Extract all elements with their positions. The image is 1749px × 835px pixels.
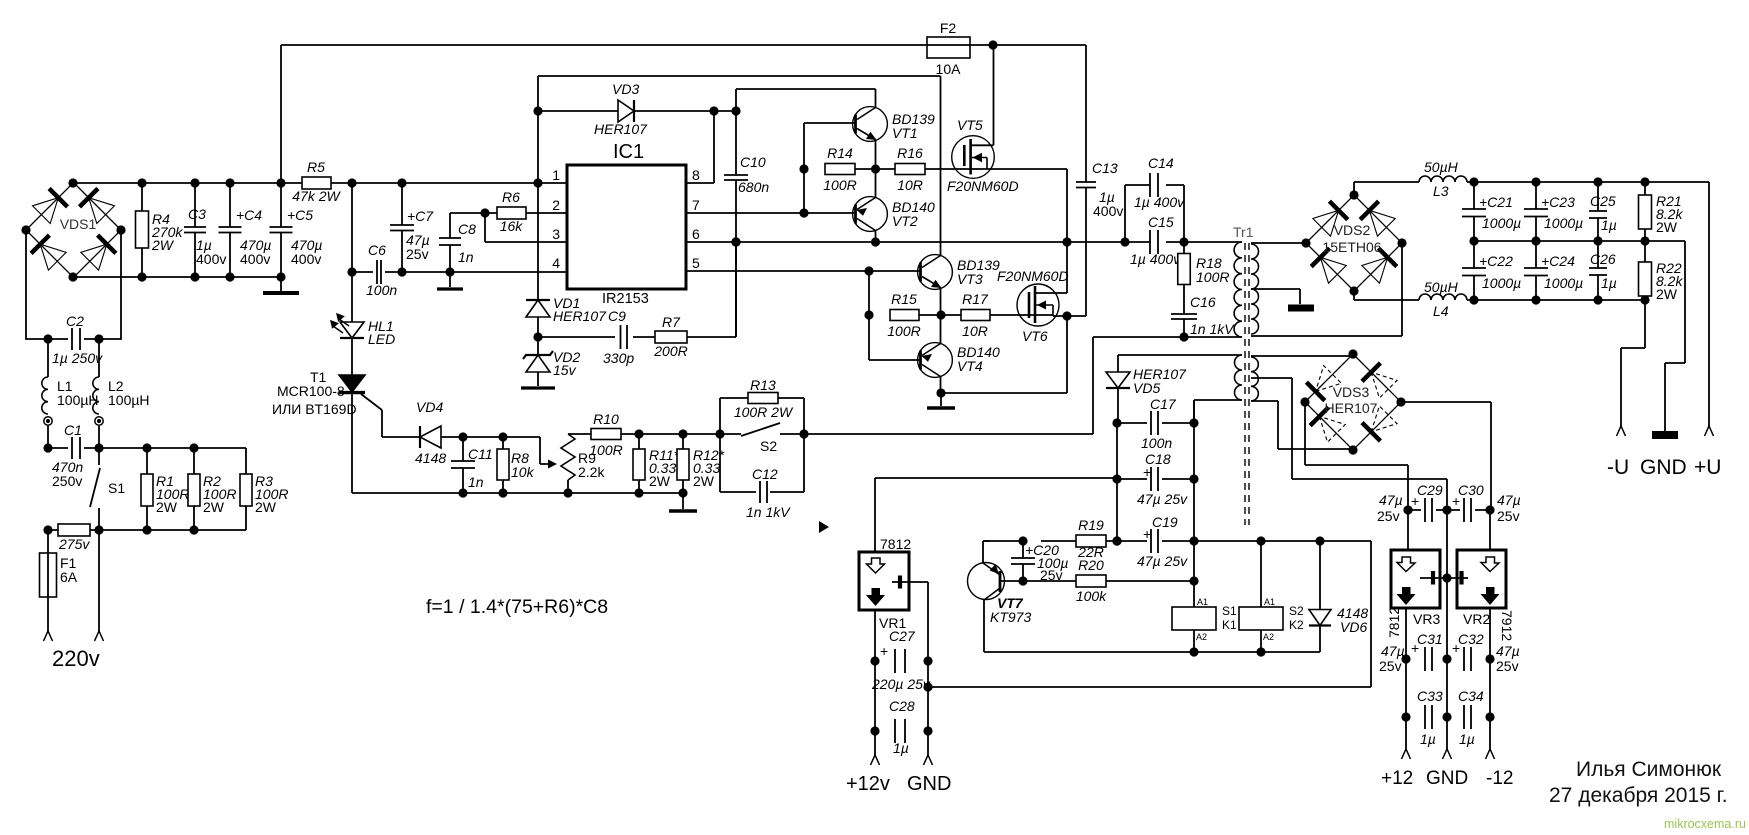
- node VD1 VD2 junction: [533, 332, 542, 341]
- svg-text:2W: 2W: [693, 473, 715, 489]
- svg-text:100R: 100R: [887, 323, 920, 339]
- transistor VT1: [853, 107, 888, 142]
- wire F1 top lead: [47, 530, 49, 597]
- svg-text:Tr1: Tr1: [1233, 224, 1254, 240]
- wire L1 top lead: [47, 339, 49, 377]
- ground VT4: [927, 406, 955, 409]
- node pin4 rail junctions: [397, 267, 454, 276]
- svg-text:L4: L4: [1433, 303, 1449, 319]
- wire C13 branch: [1067, 45, 1086, 316]
- wire secondary top: [1251, 242, 1306, 244]
- ground VD2: [521, 386, 555, 389]
- resistor R13: [748, 393, 778, 404]
- terminal L2 plug: [95, 417, 103, 425]
- svg-text:2: 2: [552, 197, 560, 213]
- wire VT7 emitter: [983, 541, 990, 563]
- wire C5 leads: [280, 183, 282, 277]
- svg-text:1µ: 1µ: [1601, 217, 1617, 233]
- svg-text:1µ: 1µ: [893, 740, 909, 756]
- node mid-bus junctions: [731, 237, 1188, 246]
- transistor VT2: [853, 197, 888, 232]
- svg-text:+: +: [1452, 640, 1460, 656]
- wire C12 loop: [720, 434, 804, 492]
- svg-text:1000µ: 1000µ: [1482, 215, 1521, 231]
- svg-text:1000µ: 1000µ: [1482, 275, 1521, 291]
- node R19 right junction: [1112, 536, 1121, 545]
- svg-text:K1: K1: [1222, 618, 1237, 632]
- svg-text:S2: S2: [760, 438, 777, 454]
- svg-text:R20: R20: [1078, 557, 1104, 573]
- svg-text:100n: 100n: [1141, 435, 1172, 451]
- svg-text:R13: R13: [750, 377, 776, 393]
- bridge rectifier VDS2: [1306, 195, 1402, 291]
- svg-text:6A: 6A: [60, 569, 78, 585]
- capacitor C26: [1589, 268, 1607, 275]
- varistor RU 275v: [58, 524, 90, 536]
- wire aux secondary top: [1251, 355, 1353, 357]
- potentiometer R9: [561, 434, 575, 480]
- wire bridge AC loop: [26, 230, 121, 339]
- wire VT5 drain: [971, 45, 994, 145]
- node C10 pin6 junction: [731, 237, 740, 246]
- svg-text:15v: 15v: [553, 362, 577, 378]
- svg-text:S1: S1: [1222, 604, 1237, 618]
- inductor L2: [93, 377, 99, 414]
- ground center tap: [1288, 305, 1314, 312]
- svg-text:100k: 100k: [1076, 588, 1107, 604]
- capacitor C1: [72, 437, 80, 459]
- wire C20 leads: [1022, 541, 1024, 581]
- svg-text:S1: S1: [108, 480, 125, 496]
- node R10 row junctions: [634, 429, 808, 438]
- svg-text:C14: C14: [1148, 155, 1174, 171]
- svg-text:C28: C28: [889, 698, 915, 714]
- svg-text:mikrocxema.ru: mikrocxema.ru: [1664, 817, 1746, 830]
- wire VR3 input: [1407, 510, 1409, 550]
- svg-text:LED: LED: [368, 331, 395, 347]
- node relay rail junctions: [1189, 647, 1265, 656]
- svg-text:47µ 25v: 47µ 25v: [1137, 491, 1188, 507]
- transformer Tr1 primary winding: [1234, 242, 1242, 337]
- capacitor C13: [1076, 182, 1096, 188]
- svg-text:R10: R10: [593, 411, 619, 427]
- ground R12: [669, 509, 697, 512]
- wire VD3 line: [538, 76, 736, 183]
- wire pin6 VS mid-bus: [686, 241, 1242, 243]
- R9 wiper arrowhead: [548, 460, 557, 469]
- node relay feed junctions: [1256, 536, 1324, 545]
- svg-text:50µH: 50µH: [1424, 279, 1459, 295]
- svg-text:47µ: 47µ: [1381, 643, 1405, 659]
- wire VT5 source: [984, 169, 1067, 242]
- svg-text:25v: 25v: [1377, 508, 1400, 524]
- svg-text:R16: R16: [897, 145, 923, 161]
- svg-text:C19: C19: [1152, 514, 1178, 530]
- svg-text:27 декабря 2015 г.: 27 декабря 2015 г.: [1549, 784, 1728, 807]
- wire VR3 output: [1405, 608, 1407, 749]
- VR3 gnd pin symbol: [1420, 577, 1447, 579]
- svg-text:10A: 10A: [936, 61, 962, 77]
- VR1 gnd pin symbol: [892, 581, 928, 583]
- node aux left rail junctions: [1112, 418, 1121, 545]
- transformer Tr1 secondary winding: [1251, 244, 1259, 334]
- wire R8 leads: [502, 437, 504, 493]
- wire VDS2 plus to L3: [1354, 182, 1419, 195]
- wire R9 wiper: [503, 437, 549, 464]
- svg-text:1µ: 1µ: [1601, 275, 1617, 291]
- wire R18 leads: [1183, 242, 1185, 314]
- svg-text:1n 1kV: 1n 1kV: [1190, 321, 1235, 337]
- wire pin8 to VD3: [686, 111, 714, 183]
- svg-text:F2: F2: [940, 20, 957, 36]
- resistor R19: [1076, 535, 1106, 547]
- svg-text:6: 6: [692, 226, 700, 242]
- svg-text:7812: 7812: [1386, 607, 1402, 638]
- svg-text:VDS1: VDS1: [60, 216, 97, 232]
- svg-text:VT5: VT5: [957, 117, 983, 133]
- svg-text:25v: 25v: [1496, 658, 1519, 674]
- node bus junctions: [137, 178, 542, 187]
- svg-text:IC1: IC1: [613, 141, 644, 163]
- svg-text:C34: C34: [1458, 688, 1484, 704]
- svg-text:ИЛИ BT169D: ИЛИ BT169D: [272, 401, 357, 417]
- wire R14 to emitters: [855, 168, 895, 170]
- wire R15 to emitters: [919, 314, 961, 316]
- wire VD1 VD2 chain: [537, 183, 539, 386]
- svg-text:400v: 400v: [240, 251, 270, 267]
- node pin7 pin5 junctions: [799, 208, 873, 275]
- wire VT3 base riser: [869, 271, 921, 360]
- capacitor C5: [270, 227, 293, 233]
- svg-text:VD6: VD6: [1340, 619, 1367, 635]
- capacitor C18: [1151, 467, 1158, 491]
- node VR mid gnd junction: [1442, 573, 1451, 582]
- wire VT7 collector: [984, 600, 1320, 652]
- svg-text:1000µ: 1000µ: [1544, 215, 1583, 231]
- svg-text:-U: -U: [1607, 456, 1629, 479]
- svg-text:C33: C33: [1417, 688, 1443, 704]
- node C27 junctions: [870, 656, 932, 665]
- svg-text:250v: 250v: [52, 473, 82, 489]
- VR2 gnd pin symbol: [1447, 577, 1468, 579]
- svg-text:1µ 250v: 1µ 250v: [52, 350, 103, 366]
- wire C9 R7 net: [538, 242, 736, 337]
- svg-text:VDS2: VDS2: [1334, 222, 1371, 238]
- svg-text:A2: A2: [1196, 632, 1207, 642]
- wire S2 right stub: [780, 433, 804, 435]
- node VT4 ground junction: [936, 388, 945, 397]
- wire R4 leads: [141, 183, 143, 277]
- wire low side return: [941, 392, 1067, 394]
- node R15 base junction: [864, 310, 873, 319]
- svg-text:100R: 100R: [823, 177, 856, 193]
- svg-text:+: +: [1452, 493, 1460, 509]
- switch S2 blade: [741, 423, 780, 436]
- node minus rail junctions: [1469, 295, 1649, 304]
- wire S1 bottom stub: [98, 508, 100, 530]
- node zero rail junctions: [1469, 236, 1649, 245]
- node aux right rail junctions: [1189, 418, 1198, 585]
- wire R6 net: [450, 213, 567, 242]
- svg-text:1000µ: 1000µ: [1544, 275, 1583, 291]
- node lower rail junctions: [137, 272, 285, 281]
- svg-text:C16: C16: [1190, 294, 1216, 310]
- wire C21 leads: [1473, 180, 1475, 241]
- wire S1 down lead: [98, 530, 100, 631]
- capacitor C6: [377, 260, 381, 284]
- svg-text:1µ 400v: 1µ 400v: [1134, 194, 1185, 210]
- wire aux secondary bottom: [1251, 401, 1353, 449]
- svg-text:25v: 25v: [1497, 508, 1520, 524]
- fuse F1: [40, 553, 57, 597]
- wire S2 left stub: [720, 433, 741, 435]
- terminal +12v: [871, 755, 880, 765]
- svg-text:1n 1kV: 1n 1kV: [746, 504, 791, 520]
- svg-text:7912: 7912: [1499, 610, 1515, 641]
- wire VD4 line: [382, 436, 503, 438]
- wire F1 bottom lead: [47, 597, 49, 631]
- svg-text:GND: GND: [907, 773, 951, 795]
- capacitor C32: [1464, 647, 1471, 671]
- svg-text:+: +: [1411, 493, 1419, 509]
- svg-text:47µ: 47µ: [1496, 643, 1520, 659]
- op-amp U IC1 IR2153 box: [567, 165, 686, 289]
- diode VD5: [1106, 372, 1130, 388]
- svg-text:100R: 100R: [1196, 269, 1229, 285]
- wire C4 leads: [229, 183, 231, 277]
- resistor R17: [961, 310, 990, 321]
- svg-text:25v: 25v: [406, 246, 429, 262]
- svg-text:47k 2W: 47k 2W: [292, 188, 341, 204]
- svg-text:S2: S2: [1289, 604, 1304, 618]
- node mains row junctions: [43, 525, 198, 534]
- svg-text:50µH: 50µH: [1424, 159, 1459, 175]
- wire bus to thyristor chain: [351, 183, 353, 493]
- capacitor C34: [1464, 705, 1471, 729]
- wire VT6 drain: [1035, 242, 1067, 293]
- wire C29 C30 row: [1408, 509, 1490, 511]
- node VD3 junctions: [533, 106, 740, 115]
- wire R10 row: [568, 433, 720, 435]
- bridge rectifier VDS3: [1305, 354, 1401, 450]
- wire C10 branch: [735, 89, 737, 337]
- wire VR2 output: [1489, 608, 1491, 717]
- node VT6 source junction: [1062, 311, 1071, 320]
- node C31 row junctions: [1401, 654, 1494, 663]
- node VDS2 corners: [1301, 190, 1406, 295]
- svg-text:2W: 2W: [203, 499, 225, 515]
- wire T1 gate: [361, 394, 382, 437]
- wire C1 row: [48, 447, 246, 449]
- svg-text:C32: C32: [1458, 631, 1484, 647]
- svg-text:200R: 200R: [653, 343, 687, 359]
- transistor VT6 mosfet: [1017, 284, 1059, 326]
- wire R12 leads: [682, 434, 684, 493]
- svg-text:+U: +U: [1694, 456, 1721, 479]
- svg-text:K2: K2: [1289, 618, 1304, 632]
- wire pin4 gnd stub: [449, 272, 451, 287]
- wire C14 loop: [1125, 185, 1184, 242]
- svg-text:+12: +12: [1381, 768, 1413, 789]
- capacitor C16: [1171, 314, 1197, 319]
- wire VT4 collector: [940, 377, 942, 394]
- svg-text:GND: GND: [1640, 456, 1687, 479]
- node VDS3 corners: [1300, 349, 1405, 454]
- wire C19 row: [1117, 540, 1194, 542]
- svg-text:R14: R14: [827, 145, 853, 161]
- svg-text:VT1: VT1: [892, 125, 918, 141]
- inductor L3: [1419, 176, 1467, 182]
- svg-text:+: +: [1143, 464, 1151, 480]
- capacitor C19: [1151, 529, 1158, 553]
- svg-text:4: 4: [552, 255, 560, 271]
- svg-text:+C24: +C24: [1541, 253, 1575, 269]
- ground output terminal: [1652, 431, 1678, 439]
- svg-text:VDS3: VDS3: [1333, 384, 1370, 400]
- node VD4 row junctions: [458, 432, 507, 441]
- wire R1 leads: [146, 448, 148, 530]
- fuse F2: [927, 37, 970, 58]
- svg-text:MCR100-8: MCR100-8: [277, 383, 345, 399]
- svg-text:C27: C27: [889, 628, 916, 644]
- svg-text:7: 7: [692, 197, 700, 213]
- capacitor C31: [1425, 647, 1432, 671]
- svg-text:5: 5: [692, 255, 700, 271]
- svg-text:R7: R7: [662, 314, 681, 330]
- voltage regulator VR2 box: [1457, 550, 1506, 608]
- svg-text:L3: L3: [1433, 183, 1449, 199]
- wire VD6 leads: [1319, 541, 1321, 652]
- wire secondary bottom: [1251, 243, 1402, 336]
- node C1 row junctions: [43, 443, 198, 452]
- svg-text:1n: 1n: [468, 474, 484, 490]
- svg-text:F20NM60D: F20NM60D: [947, 178, 1019, 194]
- node C20 top junction: [1018, 536, 1027, 545]
- wire VDS2 minus to L4: [1354, 291, 1419, 300]
- resistor R20: [1076, 575, 1106, 587]
- resistor R6: [497, 207, 526, 219]
- svg-text:R15: R15: [891, 291, 917, 307]
- svg-text:C13: C13: [1092, 160, 1118, 176]
- svg-text:+C23: +C23: [1541, 194, 1575, 210]
- capacitor C15: [1150, 230, 1158, 254]
- svg-text:100R 2W: 100R 2W: [734, 404, 794, 420]
- wire -12 terminal lead: [1489, 717, 1491, 749]
- wire VT6 source: [1053, 316, 1067, 393]
- wire R20 row: [1023, 580, 1194, 582]
- svg-text:C15: C15: [1148, 214, 1174, 230]
- svg-text:Илья Симонюк: Илья Симонюк: [1576, 758, 1722, 781]
- resistor R15: [890, 310, 919, 321]
- svg-text:3: 3: [552, 226, 560, 242]
- resistor R12: [677, 449, 689, 480]
- svg-text:C6: C6: [368, 242, 386, 258]
- resistor R8: [497, 449, 509, 480]
- svg-text:VD4: VD4: [416, 399, 443, 415]
- svg-text:25v: 25v: [1379, 658, 1402, 674]
- svg-text:2W: 2W: [255, 499, 277, 515]
- wire C22 leads: [1473, 241, 1475, 300]
- svg-text:HER107: HER107: [553, 308, 607, 324]
- voltage regulator VR3 box: [1391, 550, 1440, 608]
- wire S2 output line: [804, 433, 1093, 435]
- svg-text:VR2: VR2: [1463, 611, 1490, 627]
- capacitor C27: [895, 649, 905, 673]
- capacitor C3: [184, 227, 206, 233]
- inductor L4: [1419, 294, 1467, 300]
- wire R13 loop: [720, 398, 804, 434]
- wire zero rail: [1474, 241, 1685, 431]
- node R14 base junction: [799, 164, 808, 173]
- svg-text:HER107: HER107: [1325, 400, 1378, 416]
- svg-text:+C7: +C7: [407, 208, 434, 224]
- wire VR1 input: [875, 478, 1117, 552]
- svg-text:1n: 1n: [458, 249, 474, 265]
- resistor R18: [1178, 254, 1191, 285]
- resistor R1: [141, 474, 153, 506]
- node C28 junctions: [870, 726, 932, 735]
- wire L2 bottom lead: [98, 426, 100, 448]
- svg-text:+: +: [880, 643, 888, 659]
- svg-text:10R: 10R: [962, 323, 988, 339]
- svg-text:1µ 400v: 1µ 400v: [1130, 251, 1181, 267]
- wire VT1 base riser: [804, 123, 856, 213]
- wire VT4 emitter: [940, 315, 942, 344]
- terminal -U: [1617, 426, 1626, 436]
- capacitor C12: [760, 481, 767, 503]
- wire VT4 gnd stub: [940, 393, 942, 406]
- wire C23 leads: [1535, 180, 1537, 241]
- capacitor C11: [451, 461, 475, 468]
- svg-text:220µ 25v: 220µ 25v: [871, 676, 931, 692]
- wire VT3 emitter: [940, 288, 942, 316]
- svg-text:2.2k: 2.2k: [578, 464, 605, 480]
- svg-text:f=1 / 1.4*(75+R6)*C8: f=1 / 1.4*(75+R6)*C8: [426, 596, 608, 618]
- svg-text:2W: 2W: [1656, 219, 1678, 235]
- capacitor C4: [219, 227, 242, 233]
- resistor R11: [633, 449, 645, 480]
- capacitor C33: [1425, 705, 1432, 729]
- transformer Tr1 core: [1245, 243, 1249, 525]
- resistor R21: [1639, 195, 1652, 229]
- svg-text:C26: C26: [1590, 251, 1616, 267]
- capacitor C28: [895, 719, 905, 743]
- svg-text:100n: 100n: [366, 282, 397, 298]
- wire main 310V bus: [73, 182, 567, 184]
- resistor R4: [136, 211, 149, 248]
- inductor L1: [42, 377, 48, 414]
- node C6 branch: [347, 267, 356, 276]
- svg-text:VT6: VT6: [1022, 328, 1048, 344]
- transformer Tr1 aux secondary winding: [1251, 357, 1258, 401]
- relay K2 box: [1239, 607, 1283, 630]
- transformer Tr1 aux primary winding: [1235, 355, 1243, 400]
- svg-text:100µH: 100µH: [108, 392, 150, 408]
- ground IC area: [437, 287, 463, 290]
- svg-text:680n: 680n: [738, 179, 769, 195]
- wire secondary center tap: [1251, 289, 1300, 304]
- wire top supply rail: [281, 45, 1086, 183]
- VR2 hollow arrow: [1481, 557, 1499, 572]
- node lower rail junctions2: [458, 488, 687, 497]
- svg-text:R17: R17: [962, 291, 989, 307]
- svg-text:-12: -12: [1486, 768, 1513, 789]
- terminal +U: [1705, 426, 1714, 436]
- svg-text:VT3: VT3: [957, 271, 983, 287]
- svg-text:47µ 25v: 47µ 25v: [1137, 553, 1188, 569]
- capacitor C21: [1462, 209, 1486, 217]
- svg-text:+C5: +C5: [287, 207, 313, 223]
